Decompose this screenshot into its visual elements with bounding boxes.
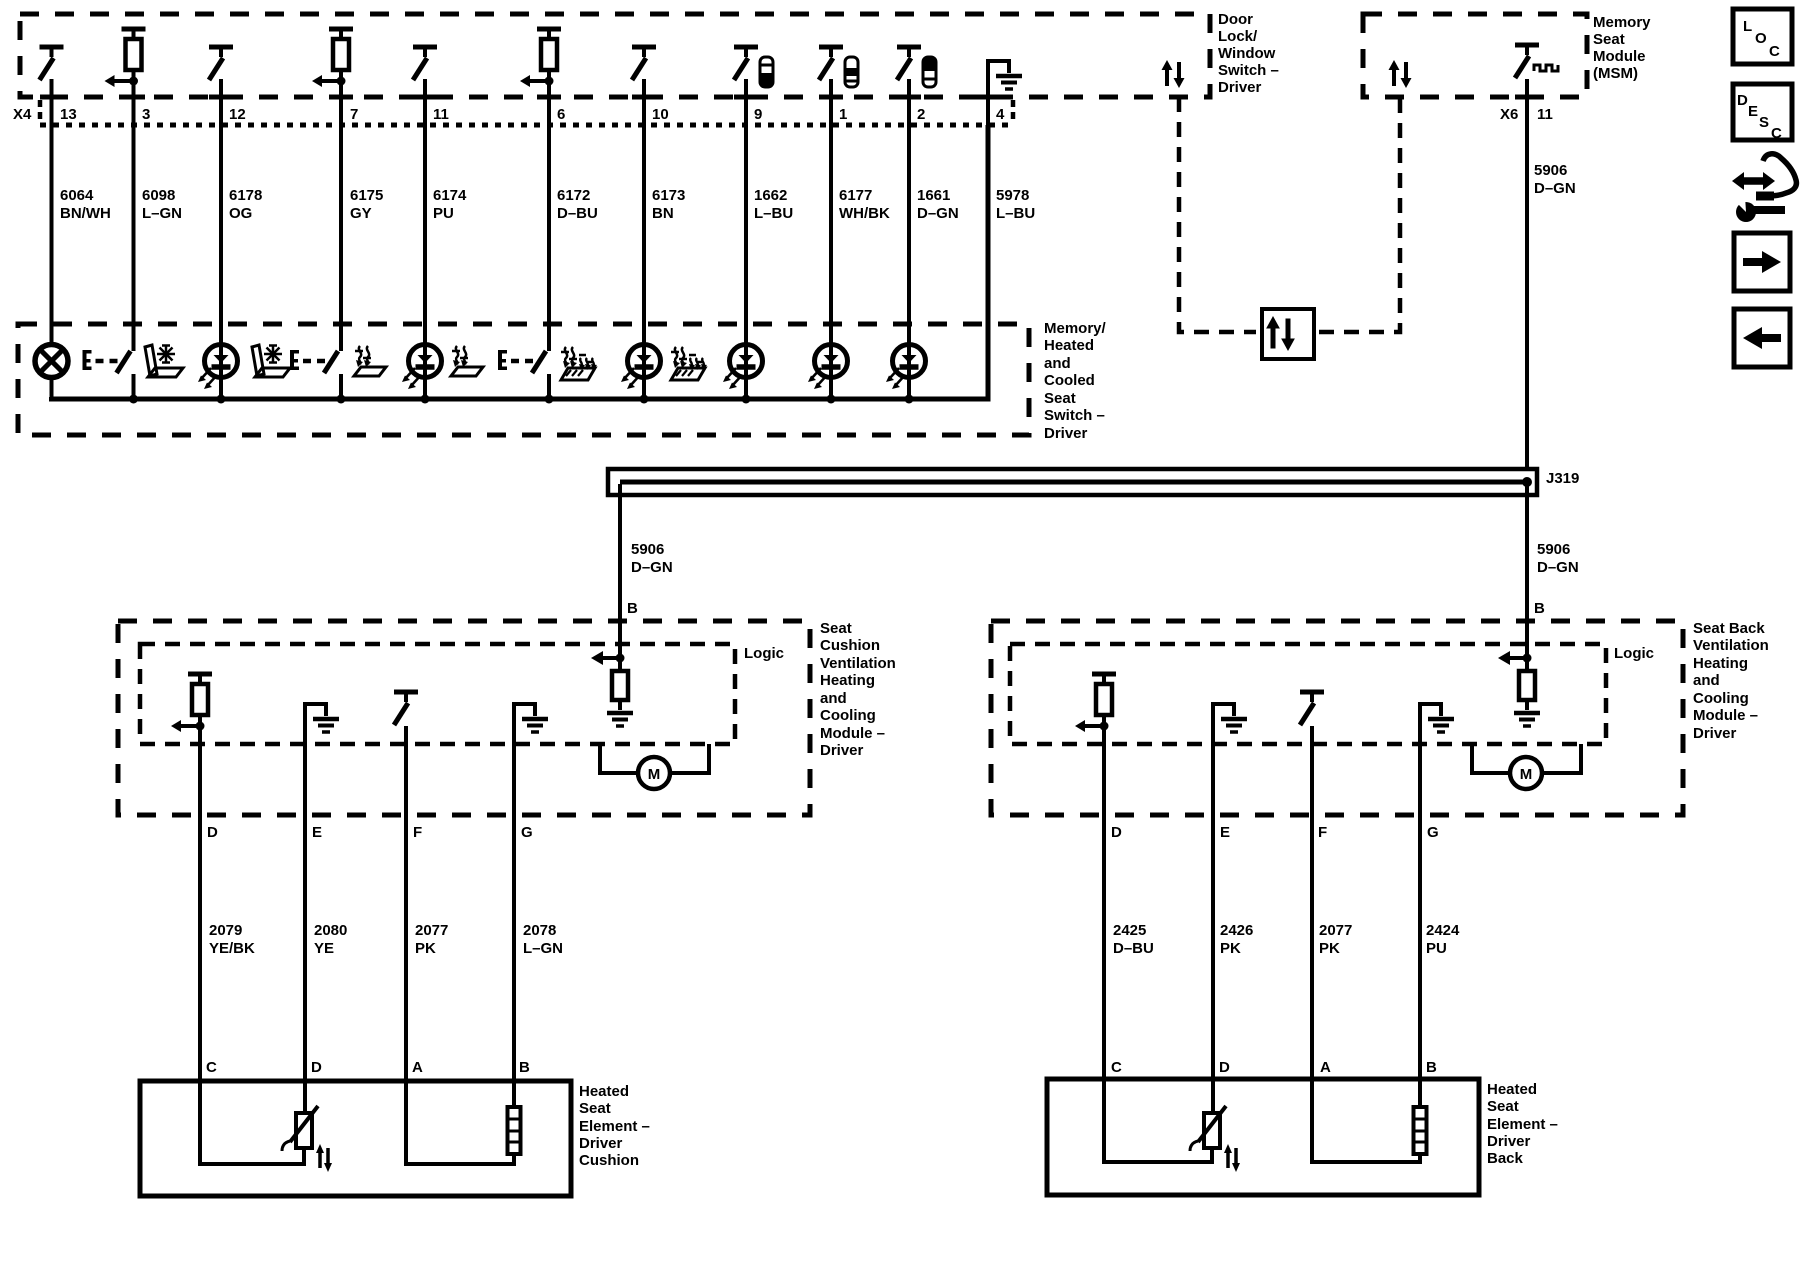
ground E left module	[305, 704, 339, 732]
ground E right module	[1213, 704, 1247, 732]
svg-text:B: B	[1426, 1059, 1437, 1076]
svg-text:E: E	[1220, 824, 1230, 841]
svg-text:2426: 2426	[1220, 922, 1253, 939]
svg-text:Switch –: Switch –	[1218, 62, 1279, 79]
svg-text:1: 1	[839, 106, 847, 123]
svg-text:YE/BK: YE/BK	[209, 940, 255, 957]
svg-text:11: 11	[1537, 106, 1553, 123]
svg-text:2080: 2080	[314, 922, 347, 939]
wire 6178 OG	[219, 79, 223, 399]
B input arrow right module	[1523, 654, 1532, 663]
forward arrow box icon	[1734, 233, 1790, 291]
wire 6098 L-GN	[132, 81, 136, 351]
ground G right module	[1420, 704, 1454, 732]
resistor to ground left module	[612, 671, 628, 700]
Logic box right	[1010, 644, 1606, 744]
svg-text:Module –: Module –	[1693, 707, 1758, 724]
Seat Cushion Ventilation Heating and Cooling Module - Driver box	[118, 621, 810, 815]
svg-text:9: 9	[754, 106, 762, 123]
svg-text:D: D	[311, 1059, 322, 1076]
svg-text:2077: 2077	[415, 922, 448, 939]
svg-text:D: D	[1111, 824, 1122, 841]
svg-text:D–GN: D–GN	[917, 205, 959, 222]
svg-text:E: E	[312, 824, 322, 841]
svg-text:Cooling: Cooling	[1693, 690, 1749, 707]
ground bus wire	[52, 125, 989, 399]
svg-text:1661: 1661	[917, 187, 950, 204]
wire 5978 L-BU	[986, 125, 990, 399]
motor left module	[600, 744, 709, 773]
resistor pin 6	[520, 29, 561, 87]
svg-text:and: and	[1693, 672, 1720, 689]
DESC box icon	[1733, 84, 1792, 140]
seat heated high icon	[671, 347, 707, 380]
svg-text:2424: 2424	[1426, 922, 1460, 939]
wire 2424 PU	[1418, 726, 1422, 1079]
wire 6175 GY	[339, 81, 343, 351]
resistor output D left module	[171, 674, 212, 732]
switch pin 2 with lock icon	[897, 47, 921, 80]
resistor to ground right module	[1519, 671, 1535, 700]
LED pin 10	[621, 345, 661, 390]
svg-text:Module: Module	[1593, 48, 1646, 65]
svg-text:Cooling: Cooling	[820, 707, 876, 724]
switch E col pin 3	[83, 350, 131, 373]
connector X4 right end	[1011, 100, 1016, 122]
svg-text:PK: PK	[415, 940, 436, 957]
switch pin 13	[40, 47, 64, 80]
svg-text:A: A	[412, 1059, 423, 1076]
svg-text:5906: 5906	[1537, 541, 1570, 558]
wire 1662 L-BU	[744, 79, 748, 399]
svg-text:D: D	[1219, 1059, 1230, 1076]
svg-text:C: C	[1771, 125, 1782, 142]
switch pin 10	[632, 47, 656, 80]
svg-text:C: C	[206, 1059, 217, 1076]
wire 2079 YE/BK	[198, 726, 202, 1081]
svg-text:1662: 1662	[754, 187, 787, 204]
svg-text:and: and	[820, 690, 847, 707]
switch pin 12	[209, 47, 233, 80]
svg-text:2079: 2079	[209, 922, 242, 939]
svg-text:D–GN: D–GN	[1534, 180, 1576, 197]
heater element right	[1312, 1079, 1420, 1162]
svg-text:D–GN: D–GN	[631, 559, 673, 576]
svg-text:Switch –: Switch –	[1044, 407, 1105, 424]
svg-text:O: O	[1755, 30, 1767, 47]
LED pin 9	[723, 345, 763, 390]
svg-text:6172: 6172	[557, 187, 590, 204]
wire 6177 WH/BK	[829, 79, 833, 399]
svg-text:12: 12	[229, 106, 246, 123]
svg-text:Heating: Heating	[1693, 655, 1748, 672]
wire 1661 D-GN	[907, 79, 911, 399]
svg-text:Memory/: Memory/	[1044, 320, 1107, 337]
resistor output D right module	[1075, 674, 1116, 732]
wire 6172 D-BU	[547, 81, 551, 351]
svg-text:6174: 6174	[433, 187, 467, 204]
svg-text:Heated: Heated	[579, 1083, 629, 1100]
svg-text:Driver: Driver	[579, 1135, 623, 1152]
svg-text:Seat: Seat	[1487, 1098, 1519, 1115]
svg-text:5906: 5906	[631, 541, 664, 558]
LED pin 12	[198, 345, 238, 390]
resistor pin 7	[312, 29, 353, 87]
B input arrow left module	[616, 654, 625, 663]
motor right module	[1472, 744, 1581, 773]
LED pin 11	[402, 345, 442, 390]
svg-text:Seat Back: Seat Back	[1693, 620, 1765, 637]
svg-text:Logic: Logic	[1614, 645, 1654, 662]
LED pin 1	[808, 345, 848, 390]
wire 6064 BN/WH	[50, 79, 54, 344]
splice pack J319	[608, 469, 1537, 495]
back arrow box icon	[1734, 309, 1790, 367]
svg-text:Heated: Heated	[1487, 1081, 1537, 1098]
svg-text:A: A	[1320, 1059, 1331, 1076]
svg-text:Lock/: Lock/	[1218, 28, 1258, 45]
ground pin 4	[988, 61, 1009, 125]
svg-text:YE: YE	[314, 940, 334, 957]
svg-text:Cooled: Cooled	[1044, 372, 1095, 389]
svg-text:Seat: Seat	[1044, 390, 1076, 407]
svg-text:C: C	[1769, 43, 1780, 60]
svg-text:7: 7	[350, 106, 358, 123]
Door Lock/Window Switch - Driver box	[20, 14, 1210, 97]
svg-text:F: F	[1318, 824, 1327, 841]
wire 5906 D-GN to right module	[1525, 484, 1529, 658]
wire 2077 PK right	[1310, 726, 1314, 1079]
wire 2426 PK	[1211, 726, 1215, 1079]
svg-text:C: C	[1111, 1059, 1122, 1076]
Heated Seat Element - Driver Back box	[1047, 1079, 1479, 1195]
svg-text:2078: 2078	[523, 922, 556, 939]
wire 5906 D-GN to left module	[618, 484, 622, 658]
switch pin 9 with lock icon	[734, 47, 758, 80]
seat cooled icon	[252, 345, 290, 377]
thermistor left	[200, 1081, 304, 1164]
indicator lamp	[35, 345, 68, 378]
svg-text:F: F	[413, 824, 422, 841]
svg-text:D: D	[1737, 92, 1748, 109]
resistor pin 3	[105, 29, 146, 87]
svg-text:B: B	[519, 1059, 530, 1076]
svg-text:Back: Back	[1487, 1150, 1524, 1167]
svg-text:Element –: Element –	[1487, 1116, 1558, 1133]
svg-text:6173: 6173	[652, 187, 685, 204]
svg-text:Driver: Driver	[820, 742, 864, 759]
svg-text:Driver: Driver	[1218, 79, 1262, 96]
svg-text:L–GN: L–GN	[142, 205, 182, 222]
svg-text:D–BU: D–BU	[1113, 940, 1154, 957]
svg-text:BN: BN	[652, 205, 674, 222]
svg-text:Window: Window	[1218, 45, 1276, 62]
svg-text:Seat: Seat	[820, 620, 852, 637]
seat heated high icon	[561, 347, 597, 380]
svg-text:B: B	[1534, 600, 1545, 617]
svg-text:Logic: Logic	[744, 645, 784, 662]
Memory Seat Module (MSM) box	[1363, 14, 1587, 97]
svg-text:and: and	[1044, 355, 1071, 372]
Memory/Heated and Cooled Seat Switch - Driver box	[18, 324, 1029, 435]
junction dots on bus	[129, 395, 138, 404]
svg-text:Element –: Element –	[579, 1118, 650, 1135]
pulse icon	[1534, 65, 1558, 71]
wire 2080 YE	[303, 726, 307, 1081]
svg-text:(MSM): (MSM)	[1593, 65, 1638, 82]
svg-text:Driver: Driver	[1693, 725, 1737, 742]
svg-text:13: 13	[60, 106, 77, 123]
svg-text:11: 11	[433, 106, 449, 123]
LED pin 2	[886, 345, 926, 390]
svg-text:Cushion: Cushion	[579, 1152, 639, 1169]
svg-text:S: S	[1759, 114, 1769, 131]
svg-text:L–BU: L–BU	[996, 205, 1035, 222]
svg-text:2425: 2425	[1113, 922, 1146, 939]
wire 2077 PK	[404, 726, 408, 1081]
wire 2425 D-BU	[1102, 726, 1106, 1079]
svg-text:10: 10	[652, 106, 669, 123]
svg-text:J319: J319	[1546, 470, 1579, 487]
Heated Seat Element - Driver Cushion box	[140, 1081, 571, 1196]
svg-text:Driver: Driver	[1487, 1133, 1531, 1150]
memory switch in MSM	[1515, 45, 1539, 78]
svg-text:Door: Door	[1218, 11, 1253, 28]
heater element left	[406, 1081, 514, 1164]
switch E col pin 7	[290, 350, 338, 373]
wire 2078 L-GN	[512, 726, 516, 1081]
Logic box left	[140, 644, 735, 744]
thermistor right	[1104, 1079, 1212, 1162]
svg-text:Memory: Memory	[1593, 14, 1651, 31]
seat heated icon	[451, 346, 483, 376]
svg-text:6064: 6064	[60, 187, 94, 204]
svg-text:Ventilation: Ventilation	[820, 655, 896, 672]
svg-text:OG: OG	[229, 205, 252, 222]
LOC box icon	[1733, 9, 1792, 64]
switch F left module	[394, 692, 418, 725]
svg-text:Module –: Module –	[820, 725, 885, 742]
connector X6 pin 11	[1525, 79, 1529, 469]
svg-text:D: D	[207, 824, 218, 841]
wire 6173 BN	[642, 79, 646, 399]
svg-text:PK: PK	[1220, 940, 1241, 957]
svg-text:X4: X4	[13, 106, 32, 123]
svg-text:6: 6	[557, 106, 565, 123]
wire 6174 PU	[423, 79, 427, 399]
up/down arrows in Door Lock box	[1162, 60, 1185, 88]
svg-text:Seat: Seat	[579, 1100, 611, 1117]
connector X4 dotted line	[40, 123, 1015, 128]
svg-text:PU: PU	[433, 205, 454, 222]
svg-text:Cushion: Cushion	[820, 637, 880, 654]
svg-text:Heated: Heated	[1044, 337, 1094, 354]
diagnostic icon	[1732, 154, 1796, 222]
svg-text:B: B	[627, 600, 638, 617]
up/down arrow box	[1262, 309, 1314, 359]
svg-text:2: 2	[917, 106, 925, 123]
svg-text:PU: PU	[1426, 940, 1447, 957]
svg-text:E: E	[1748, 103, 1758, 120]
svg-text:BN/WH: BN/WH	[60, 205, 111, 222]
svg-text:3: 3	[142, 106, 150, 123]
ground G left module	[514, 704, 548, 732]
svg-text:L–GN: L–GN	[523, 940, 563, 957]
svg-text:6175: 6175	[350, 187, 383, 204]
Seat Back Ventilation Heating and Cooling Module - Driver box	[991, 621, 1683, 815]
seat cooled icon	[145, 345, 183, 377]
svg-text:G: G	[521, 824, 533, 841]
svg-text:X6: X6	[1500, 106, 1518, 123]
svg-text:5978: 5978	[996, 187, 1029, 204]
svg-text:Seat: Seat	[1593, 31, 1625, 48]
svg-text:WH/BK: WH/BK	[839, 205, 890, 222]
svg-text:6177: 6177	[839, 187, 872, 204]
switch pin 1 with lock icon	[819, 47, 843, 80]
dashed link door lock to MSM	[1179, 97, 1256, 332]
switch E col pin 6	[498, 350, 546, 373]
svg-text:D–BU: D–BU	[557, 205, 598, 222]
svg-text:6178: 6178	[229, 187, 262, 204]
svg-text:4: 4	[996, 106, 1005, 123]
svg-text:2077: 2077	[1319, 922, 1352, 939]
svg-text:6098: 6098	[142, 187, 175, 204]
svg-text:5906: 5906	[1534, 162, 1567, 179]
connector X4 left end	[38, 100, 43, 122]
svg-text:L: L	[1743, 18, 1752, 35]
up/down arrows in MSM box	[1389, 60, 1412, 88]
svg-text:G: G	[1427, 824, 1439, 841]
seat heated icon	[354, 346, 386, 376]
switch F right module	[1300, 692, 1324, 725]
switch pin 11	[413, 47, 437, 80]
svg-text:Ventilation: Ventilation	[1693, 637, 1769, 654]
svg-text:D–GN: D–GN	[1537, 559, 1579, 576]
svg-text:GY: GY	[350, 205, 372, 222]
svg-text:L–BU: L–BU	[754, 205, 793, 222]
svg-text:Driver: Driver	[1044, 425, 1088, 442]
svg-text:PK: PK	[1319, 940, 1340, 957]
svg-text:Heating: Heating	[820, 672, 875, 689]
